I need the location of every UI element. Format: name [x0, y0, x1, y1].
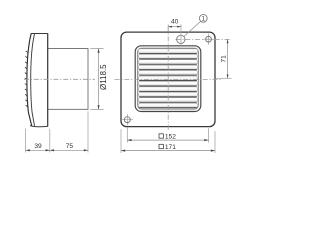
duct (side view) — [48, 49, 88, 110]
dimension line 40 — [168, 26, 181, 28]
svg-text:152: 152 — [165, 134, 176, 141]
grille outer frame — [135, 46, 201, 112]
label 152 square — [159, 134, 163, 138]
extension line 40 right — [180, 24, 182, 46]
louver slats — [138, 49, 197, 53]
dimension line 152 — [127, 139, 208, 141]
front cover silhouette — [27, 33, 32, 125]
centerline (side view) — [24, 78, 95, 80]
hole centerline through screw hole — [176, 38, 232, 40]
extension lines 171 — [121, 129, 215, 153]
dimension 71 extension bottom — [216, 77, 231, 79]
mounting plate (front view) — [121, 32, 215, 127]
svg-text:Ø118.5: Ø118.5 — [99, 64, 108, 90]
svg-text:171: 171 — [165, 144, 176, 151]
dia 118.5 dimension line — [98, 49, 100, 110]
grille inner frame — [138, 48, 199, 109]
extension line 40 left — [167, 24, 169, 32]
leader line — [184, 21, 201, 36]
balloon 1 — [199, 14, 207, 22]
mounting plate edge (side view) — [47, 33, 49, 126]
screw hole top-right cross — [203, 34, 214, 45]
extension lines 152 — [127, 127, 208, 142]
screw hole top-right — [206, 36, 212, 42]
svg-text:71: 71 — [220, 55, 227, 63]
screw hole bottom-left — [124, 117, 130, 123]
horizontal centerline (front view) — [115, 78, 223, 80]
extension lines 39 / 75 — [26, 111, 88, 152]
vertical centerline (front view) — [167, 27, 169, 132]
dia 118.5 extension lines — [90, 49, 103, 110]
dimension line 39+75 — [26, 149, 88, 151]
dimension line 71 — [227, 39, 229, 78]
louver teeth on cover edge — [25, 51, 28, 107]
front cover bottom edge — [30, 126, 48, 127]
knockout hole — [177, 35, 185, 43]
front cover inner edge — [31, 34, 35, 126]
svg-text:39: 39 — [34, 143, 42, 150]
front cover top edge — [31, 33, 48, 35]
dimension line 171 — [121, 150, 215, 152]
svg-text:40: 40 — [171, 18, 179, 25]
screw hole bottom-left cross — [122, 114, 133, 125]
svg-text:75: 75 — [66, 143, 74, 150]
label 171 square — [159, 144, 163, 148]
